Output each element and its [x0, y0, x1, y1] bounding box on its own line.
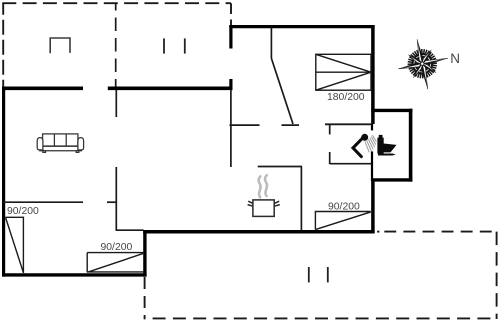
svg-text:N: N: [450, 51, 460, 66]
wall: entrance west exterior upper (above terrace door): [229, 25, 232, 49]
partition: dining/hall divider: [230, 90, 232, 167]
bottom terrace dash-dot top edge: [377, 231, 379, 233]
partition: bathroom west wall upper jamb: [329, 124, 331, 135]
shower symbol: [353, 134, 376, 157]
wall: top of living room (left segment): [2, 87, 83, 91]
bed 180/200 double (top-right bedroom): [316, 54, 371, 90]
wall: top exterior (right section): [229, 25, 374, 28]
wall: bottom-left exterior: [2, 273, 147, 276]
partition: hall north wall east segment / bathroom north: [325, 123, 372, 125]
kitchen pot: [248, 200, 280, 217]
partition: bedroom1 north wall: [3, 201, 83, 203]
wall: entrance west exterior lower (below terrace door): [229, 79, 232, 90]
partition: bathroom south wall: [330, 163, 372, 165]
wall: toilet bump east: [409, 109, 413, 182]
wall: toilet bump north: [371, 109, 412, 112]
compass rose: [393, 34, 453, 94]
terrace door mark right (top terrace): [184, 38, 186, 53]
svg-text:90/200: 90/200: [101, 242, 133, 253]
top terrace dashed west edge: [2, 3, 4, 87]
wall: right exterior: [371, 25, 375, 124]
terrace table symbol: [50, 38, 70, 53]
wall: step between bottom walls: [143, 230, 146, 277]
wall: left exterior: [2, 87, 5, 277]
svg-text:90/200: 90/200: [7, 206, 39, 217]
wall: shower/toilet divider upper stub: [371, 124, 373, 130]
partition: kitchen north wall: [258, 166, 302, 168]
bottom terrace dashed right edge: [496, 232, 498, 319]
couch: [37, 134, 83, 153]
wall: right lower exterior (below toilet bump): [371, 179, 375, 234]
svg-text:180/200: 180/200: [327, 92, 365, 103]
terrace door mark right (bottom terrace): [327, 267, 329, 282]
partition: bedroom1 north door jamb: [107, 201, 117, 203]
top terrace dashed north edge: [2, 2, 231, 4]
top terrace dashed east edge: [230, 3, 232, 25]
kitchen pot steam: [259, 175, 268, 197]
wall: toilet bump south: [371, 178, 412, 181]
wall: bottom exterior (house south): [143, 230, 374, 234]
top terrace dashed divider: [115, 3, 117, 88]
partition: living/dining divider lower: [115, 167, 117, 230]
wall: shower/toilet divider lower stub: [371, 151, 373, 181]
bottom terrace dashed bottom edge: [144, 317, 497, 319]
partition: bathroom west wall lower jamb: [329, 152, 331, 164]
bed 90/200 bedroom1 second (horizontal): [87, 253, 144, 273]
terrace door mark left (top terrace): [163, 38, 165, 53]
partition: thin south wall piece: [116, 229, 144, 231]
toilet symbol: [377, 135, 396, 156]
wall: top of living room (right segment after terrace door): [108, 87, 233, 91]
partition: hall north wall west segment: [230, 124, 260, 126]
partition: kitchen east wall: [300, 167, 302, 231]
partition: entrance diagonal wall: [271, 58, 293, 124]
bottom terrace dashed left edge: [144, 277, 146, 319]
bed 90/200 bedroom1 (vertical, bottom-left): [6, 217, 24, 273]
svg-text:90/200: 90/200: [328, 201, 360, 212]
partition: hall north wall middle segment: [282, 124, 300, 126]
partition: living/dining divider upper: [115, 90, 117, 117]
terrace door mark left (bottom terrace): [308, 267, 310, 282]
partition: entrance closet wall: [270, 28, 272, 58]
bed 90/200 bedroom3 (bottom-right): [315, 212, 370, 230]
